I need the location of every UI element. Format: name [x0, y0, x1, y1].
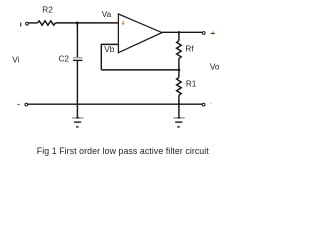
svg-text:R1: R1: [186, 79, 197, 88]
svg-text:R2: R2: [42, 5, 53, 14]
svg-text:Vo: Vo: [210, 63, 220, 72]
svg-text:Vb: Vb: [104, 45, 114, 54]
svg-text:C2: C2: [59, 54, 70, 63]
svg-text:Rf: Rf: [185, 44, 194, 53]
svg-text:Vi: Vi: [12, 56, 19, 65]
svg-text:Fig 1 First order low pass act: Fig 1 First order low pass active filter…: [37, 146, 209, 156]
svg-text:Va: Va: [102, 10, 112, 19]
